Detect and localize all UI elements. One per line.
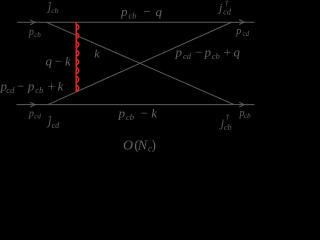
- gluon line q-k (red curly, top line down to lower diagonal): [76, 22, 79, 91]
- label j-hat_cd (bottom-left current): [46, 114, 60, 130]
- wire diagonal line (bottom-left vertex to top-right vertex): [48, 22, 232, 105]
- svg-text:cd: cd: [223, 7, 232, 16]
- svg-text:cb: cb: [51, 6, 58, 15]
- svg-text:cb: cb: [224, 123, 232, 132]
- svg-text:cd: cd: [52, 121, 61, 130]
- label j-dagger_cb (bottom-right current): [219, 113, 232, 132]
- arrow bottom-right outgoing p_cb: [239, 102, 244, 107]
- wire bottom quark line: [17, 104, 255, 106]
- label j-hat_cb (top-left current): [46, 1, 59, 15]
- label j-dagger_cd (top-right current): [217, 0, 232, 16]
- wire diagonal k line (top-left vertex to bottom-right vertex): [47, 22, 235, 104]
- svg-text:k: k: [94, 47, 100, 61]
- arrow top-left incoming p_cb: [30, 20, 35, 25]
- svg-text:q−k: q−k: [46, 54, 72, 69]
- arrow top-right outgoing p_cd: [239, 20, 244, 25]
- svg-text:O(Nc): O(Nc): [123, 138, 156, 153]
- wire top quark line: [17, 21, 255, 23]
- arrow bottom-left incoming p_cd: [30, 102, 35, 107]
